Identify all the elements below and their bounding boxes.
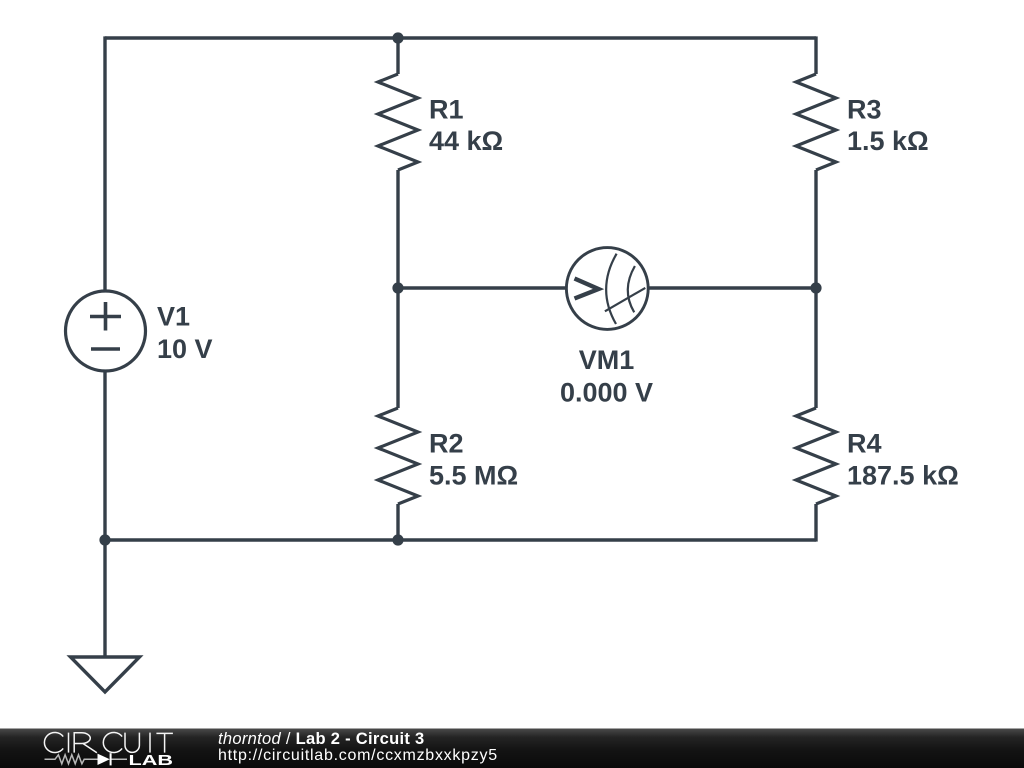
label R2 value <box>429 429 518 491</box>
svg-text:187.5 kΩ: 187.5 kΩ <box>847 461 959 491</box>
wire left column lower <box>103 372 106 540</box>
wire top rail <box>105 36 816 39</box>
svg-text:R4: R4 <box>847 429 882 459</box>
wire ground stem <box>103 540 106 657</box>
wire right column bottom lead <box>814 504 817 542</box>
svg-text:10 V: 10 V <box>157 334 213 364</box>
label R1 value <box>429 95 503 157</box>
node D junction dot (bottom, ground) <box>99 534 110 545</box>
node A junction dot (top, R1) <box>392 32 403 43</box>
wire R2 top lead <box>396 288 399 408</box>
svg-text:R3: R3 <box>847 95 882 125</box>
wire middle right (voltmeter to node C) <box>649 286 816 289</box>
svg-text:0.000 V: 0.000 V <box>560 378 653 408</box>
logo CIRCUIT letters (thin geometric strokes) <box>44 733 172 753</box>
label VM1 value <box>560 345 653 408</box>
node E junction dot (bottom, R2) <box>392 534 403 545</box>
label V1 value <box>157 302 213 365</box>
svg-text:R1: R1 <box>429 95 464 125</box>
wire left column upper <box>103 36 106 290</box>
resistor R1 <box>378 74 418 170</box>
resistor R2 <box>378 408 418 504</box>
svg-text:R2: R2 <box>429 429 464 459</box>
svg-text:V1: V1 <box>157 302 190 332</box>
label R3 value <box>847 95 929 157</box>
wire right column top lead <box>814 36 817 74</box>
ground <box>71 657 140 692</box>
svg-text:LAB: LAB <box>129 752 174 768</box>
svg-text:44 kΩ: 44 kΩ <box>429 126 503 156</box>
wire R2 bottom lead <box>396 504 399 540</box>
voltage source V1 <box>66 291 146 371</box>
wire bottom rail <box>105 538 816 541</box>
resistor R4 <box>796 408 836 504</box>
svg-text:VM1: VM1 <box>579 345 635 375</box>
svg-text:5.5 MΩ: 5.5 MΩ <box>429 461 518 491</box>
node B junction dot (middle, R1/R2) <box>392 282 403 293</box>
label R4 value <box>847 429 959 491</box>
voltmeter VM1 <box>566 248 648 330</box>
resistor R3 <box>796 74 836 170</box>
wire right column between R3 and middle node <box>814 170 817 288</box>
node C junction dot (middle, R3/R4) <box>810 282 821 293</box>
logo waveform (resistor + diode) <box>45 755 128 764</box>
wire right column between middle node and R4 <box>814 288 817 408</box>
wire R1 bottom lead <box>396 170 399 288</box>
wire middle left (node B to voltmeter) <box>398 286 566 289</box>
svg-text:thorntod / Lab 2 - Circuit 3: thorntod / Lab 2 - Circuit 3 <box>218 730 424 748</box>
svg-text:http://circuitlab.com/ccxmzbxx: http://circuitlab.com/ccxmzbxxkpzy5 <box>218 747 498 764</box>
logo diode symbol <box>98 753 111 765</box>
wire R1 top lead <box>396 38 399 74</box>
svg-text:1.5 kΩ: 1.5 kΩ <box>847 126 929 156</box>
